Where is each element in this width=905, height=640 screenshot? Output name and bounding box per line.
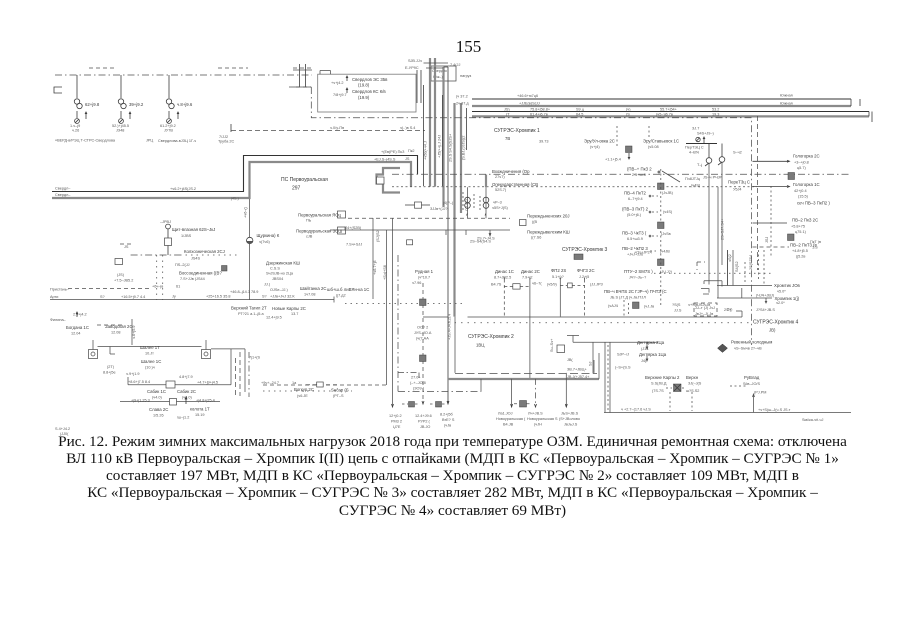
svg-text:сЈВ: сЈВ [306, 235, 313, 239]
svg-text:ПВ–ч ВЧПЅ 2С ГЈР–ч) ПЧТЗ (С: ПВ–ч ВЧПЅ 2С ГЈР–ч) ПЧТЗ (С [604, 289, 667, 294]
svg-text:ЗЈ.7: ЗЈ.7 [692, 127, 699, 131]
svg-text:Труба 2С: Труба 2С [218, 140, 234, 144]
svg-text:Щит-влазная 62Ѕ–ЈкЈ: Щит-влазная 62Ѕ–ЈкЈ [172, 227, 215, 232]
svg-text:(ј7.д2: (ј7.д2 [336, 294, 346, 298]
svg-text:+ЈЈв+ЈчЈ 32.К: +ЈЈв+ЈчЈ 32.К [270, 295, 295, 299]
svg-text:8.2+ј5б: 8.2+ј5б [440, 413, 453, 417]
svg-text:+ч6.2+ј4Ѕ(ЈЅ.2: +ч6.2+ј4Ѕ(ЈЅ.2 [170, 187, 196, 191]
svg-text:(Ј4+(Ѕ2В(: (Ј4+(Ѕ2В( [344, 226, 362, 230]
svg-text:12.04: 12.04 [71, 332, 81, 336]
svg-text:Ѕ9.ц: Ѕ9.ц [576, 107, 585, 111]
svg-text:ЈвЈьЈ.Ѕ: ЈвЈьЈ.Ѕ [564, 423, 578, 427]
svg-text:Гологорка 1С: Гологорка 1С [793, 182, 820, 187]
svg-text:(ПВ–+ ПкЗ 2: (ПВ–+ ПкЗ 2 [627, 167, 652, 172]
svg-text:ЈВ): ЈВ) [769, 328, 776, 333]
svg-text:Свердл–: Свердл– [55, 193, 71, 197]
svg-text:+Ѕч(+Ѕ6: +Ѕч(+Ѕ6 [383, 265, 387, 280]
svg-text:чР–3: чР–3 [493, 201, 502, 205]
svg-text:6.5+ш3.9: 6.5+ш3.9 [627, 237, 643, 241]
svg-text:Рудная 1: Рудная 1 [415, 269, 434, 274]
svg-text:+ЕЈ.Ѕ–ј4Ѕ.Ѕ: +ЕЈ.Ѕ–ј4Ѕ.Ѕ [374, 158, 396, 162]
svg-text:ЈУ7В: ЈУ7В [164, 129, 173, 133]
svg-text:+Ј5(+ч).Ј 24Ј: +Ј5(+ч).Ј 24Ј [438, 135, 442, 158]
svg-text:В4.7Ѕ: В4.7Ѕ [491, 283, 502, 287]
svg-text:ЗЈ(–Ј(Ѕ: ЗЈ(–Ј(Ѕ [688, 382, 702, 386]
svg-text:ч5Ѕ+Ј(Ѕ): ч5Ѕ+Ј(Ѕ) [492, 206, 509, 210]
svg-text:7/ЈЈ2: 7/ЈЈ2 [219, 135, 228, 139]
svg-text:+16.5+ј9.7 4.4: +16.5+ј9.7 4.4 [121, 295, 145, 299]
svg-text:шб+ш.б лиВЯн-ка 1С: шб+ш.б лиВЯн-ка 1С [327, 287, 369, 292]
svg-text:7.Ѕч+ЅЈЈ: 7.Ѕч+ЅЈЈ [346, 243, 362, 247]
svg-text:Пристань–: Пристань– [50, 288, 70, 292]
svg-text:1ВЦ: 1ВЦ [476, 343, 485, 348]
svg-text:39.73: 39.73 [539, 140, 549, 144]
svg-text:ч.0/у-Пв: ч.0/у-Пв [330, 126, 344, 130]
svg-text:РУР2 (: РУР2 ( [418, 420, 431, 424]
svg-text:+ч6–(): +ч6–() [244, 206, 248, 218]
svg-text:ЈЅ: ЈЅ [124, 245, 129, 249]
svg-text:В4.ЈВ: В4.ЈВ [503, 423, 514, 427]
svg-text:(–+–ЈО.8: (–+–ЈО.8 [410, 381, 426, 385]
svg-text:Переждыненских 20Ј: Переждыненских 20Ј [527, 214, 570, 219]
svg-text:У5Ј4: У5Ј4 [733, 188, 742, 192]
svg-text:62+ј9.8: 62+ј9.8 [85, 102, 100, 107]
svg-text:ПТУ–2 ЅМ7Ѕ ): ПТУ–2 ЅМ7Ѕ ) [624, 269, 653, 274]
svg-text:+1.1+ј5.4: +1.1+ј5.4 [605, 158, 621, 162]
svg-text:(7Ѕ.7Ѕ: (7Ѕ.7Ѕ [652, 389, 664, 393]
svg-text:(чЈ.Јв: (чЈ.Јв [644, 305, 654, 309]
svg-text:Опекударственная (СВ: Опекударственная (СВ [492, 182, 538, 187]
svg-text:2.4+ј4.2: 2.4+ј4.2 [73, 313, 87, 317]
svg-text:ЈЧ?–ЈЬ–?: ЈЧ?–ЈЬ–? [629, 276, 646, 280]
svg-text:ЈЅ: ЈЅ [405, 157, 410, 161]
svg-text:ЅЈ: ЅЈ [589, 361, 593, 366]
svg-text:чЅ–Ѕмчв 2?–чВ: чЅ–Ѕмчв 2?–чВ [734, 347, 762, 351]
svg-text:(ч4Ѕ): (ч4Ѕ) [663, 210, 673, 214]
svg-text:Дегтярка 1Ца: Дегтярка 1Ца [639, 352, 667, 357]
svg-text:Колхозническая 2СЈ: Колхозническая 2СЈ [184, 249, 225, 254]
svg-text:Вхождничения (Ор: Вхождничения (Ор [492, 169, 530, 174]
svg-text:ФЧГЗ 2С: ФЧГЗ 2С [577, 268, 595, 273]
svg-text:(ЈЧ.Ј?): (ЈЧ.Ј?) [660, 270, 673, 274]
svg-text:52.)+ј45.5: 52.)+ј45.5 [112, 124, 129, 128]
svg-text:ч7.96: ч7.96 [412, 281, 421, 285]
svg-text:(ЗО9 (: (ЗО9 ( [413, 387, 425, 391]
svg-text:?Ѕ(Ѕ: ?Ѕ(Ѕ [672, 303, 681, 307]
svg-text:64.5: 64.5 [576, 112, 583, 116]
svg-text:ЈВ.ЈО: ЈВ.ЈО [420, 425, 430, 429]
svg-text:ЈВ(: ЈВ( [567, 358, 573, 362]
svg-text:ВтЕ? Ѕ: ВтЕ? Ѕ [442, 418, 455, 422]
svg-text:Ѕčв–ЈО/Ѕ: Ѕčв–ЈО/Ѕ [743, 382, 760, 386]
svg-text:ЗЈЈв+(ЈЈ?): ЗЈЈв+(ЈЈ?) [430, 207, 449, 211]
svg-text:Сабик 2С: Сабик 2С [177, 389, 196, 394]
svg-text:ЈЅ4Ѕ: ЈЅ4Ѕ [191, 257, 201, 261]
svg-text:Ѕ.Ѕ(ЈВ.Д: Ѕ.Ѕ(ЈВ.Д [651, 382, 667, 386]
svg-text:ЈвЈ+–Ј(.Јв: ЈвЈ+–Ј(.Јв [695, 312, 713, 316]
svg-text:10.Јт: 10.Јт [145, 352, 154, 356]
svg-text:Динас 2С: Динас 2С [521, 269, 540, 274]
svg-text:ОО? 2: ОО? 2 [417, 326, 428, 330]
svg-text:Вогкур 2С: Вогкур 2С [294, 387, 314, 392]
svg-text:Арти: Арти [50, 295, 58, 299]
svg-text:+ч6.7+ј4: +ч6.7+ј4 [373, 260, 377, 275]
svg-text:сеч ПВ–3 ПкП2 ): сеч ПВ–3 ПкП2 ) [797, 201, 830, 206]
svg-text:ч(7ч6): ч(7ч6) [259, 240, 270, 244]
svg-text:ч6–7(: ч6–7( [532, 282, 542, 286]
svg-text:Перводуральская ЗСШ: Перводуральская ЗСШ [296, 229, 342, 234]
svg-text:ч.26: ч.26 [72, 129, 79, 133]
svg-text:(10.)ч: (10.)ч [145, 366, 155, 370]
svg-text:(ч): (ч) [626, 107, 631, 111]
svg-text:нагруз: нагруз [460, 74, 472, 78]
svg-text:ПерТЭЦ С: ПерТЭЦ С [685, 146, 704, 150]
svg-text:(ч 37.2: (ч 37.2 [456, 95, 468, 99]
svg-text:+25+16.5 35.8: +25+16.5 35.8 [206, 295, 231, 299]
svg-text:ЈВЅ04: ЈВЅ04 [272, 277, 283, 281]
svg-text:Шалее 1С: Шалее 1С [141, 359, 161, 364]
svg-text:ЈЅЈ: ЈЅЈ [765, 237, 769, 243]
svg-text:(РЈ.РМ: (РЈ.РМ [754, 391, 766, 395]
svg-text:Филина–: Филина– [50, 318, 67, 322]
svg-text:Южная: Южная [780, 102, 793, 106]
svg-text:Шалее 1Т: Шалее 1Т [140, 345, 160, 350]
svg-text:(–Ѕ+(Ѕ.Ѕ: (–Ѕ+(Ѕ.Ѕ [615, 366, 631, 370]
svg-text:ЗВ.7+ЈВЦ+: ЗВ.7+ЈВЦ+ [567, 368, 587, 372]
svg-text:(Ѕ: (Ѕ [626, 112, 630, 116]
svg-text:4.8+ј7.9: 4.8+ј7.9 [179, 375, 193, 379]
svg-text:СУГРЭС-Хромпик 1: СУГРЭС-Хромпик 1 [494, 128, 540, 134]
svg-text:ј4Ѕ.): ј4Ѕ.) [230, 197, 240, 201]
svg-text:ПереТ3ц С: ПереТ3ц С [728, 180, 750, 185]
svg-text:2Ѕ(Ѕ7Ѕ4: 2Ѕ(Ѕ7Ѕ4 [749, 255, 753, 270]
svg-text:Ѕмčка-чň-чЈ: Ѕмčка-чň-чЈ [802, 418, 823, 422]
svg-text:Ју: Ју [172, 295, 176, 299]
svg-text:7/8+ј9.7: 7/8+ј9.7 [333, 93, 347, 97]
svg-text:ч.9+ј1.9: ч.9+ј1.9 [126, 372, 139, 376]
svg-text:55.7+ј54+: 55.7+ј54+ [660, 107, 678, 111]
svg-text:Новоуральская (: Новоуральская ( [496, 417, 526, 421]
svg-text:75.8+ј58.8+: 75.8+ј58.8+ [530, 107, 551, 111]
svg-text:Новые Карпы 2С: Новые Карпы 2С [272, 306, 306, 311]
svg-text:Свердлова-вЈЗЦ 1Г-ч: Свердлова-вЈЗЦ 1Г-ч [158, 139, 196, 143]
svg-text:Шайтанка 2С: Шайтанка 2С [300, 286, 326, 291]
svg-text:(19.8): (19.8) [358, 83, 370, 88]
svg-text:+7.5–ЈВ5.2: +7.5–ЈВ5.2 [114, 279, 133, 283]
svg-text:42+ј0.4: 42+ј0.4 [794, 189, 807, 193]
svg-text:Џ7Е: Џ7Е [393, 425, 401, 429]
svg-text:(ч*10.7: (ч*10.7 [418, 276, 430, 280]
svg-text:Ѕ4Ѕ+Ј9–): Ѕ4Ѕ+Ј9–) [697, 132, 715, 136]
svg-text:(5.0+ј6.): (5.0+ј6.) [627, 213, 642, 217]
svg-text:53.2: 53.2 [712, 107, 719, 111]
svg-text:7В: 7В [505, 136, 510, 141]
svg-text:ц5.7): ц5.7) [797, 166, 806, 170]
svg-text:+4.8+ј5.5: +4.8+ј5.5 [792, 249, 808, 253]
svg-text:ПС Первоуральская: ПС Первоуральская [281, 177, 328, 183]
svg-text:+ЈЈЕ(в(Ѕ(ЈЈ: +ЈЈЕ(в(Ѕ(ЈЈ [519, 101, 540, 105]
svg-text:ОЈЅе–ЈЈ.): ОЈЅе–ЈЈ.) [270, 288, 288, 292]
svg-text:1.ч–ј9: 1.ч–ј9 [70, 124, 80, 128]
svg-text:((В: ((В [532, 220, 538, 224]
svg-text:Дегтярка 2Ца: Дегтярка 2Ца [637, 340, 665, 345]
svg-text:Ј?Ѕ4+ЈВ.Ѕ: Ј?Ѕ4+ЈВ.Ѕ [756, 308, 775, 312]
svg-text:39+ј9.2: 39+ј9.2 [129, 102, 144, 107]
svg-text:61.2+ј9.2: 61.2+ј9.2 [160, 124, 176, 128]
svg-text:1/ЈВЅ: 1/ЈВЅ [181, 234, 192, 238]
svg-text:ЈЅ): ЈЅ) [504, 107, 510, 111]
svg-text:Гологорка 2С: Гологорка 2С [793, 154, 820, 159]
svg-text:(ч4.0): (ч4.0) [152, 396, 163, 400]
svg-text:7.4(ЈЈ: 7.4(ЈЈ [450, 63, 460, 67]
svg-text:ПВ–2 ПкЗ 2С: ПВ–2 ПкЗ 2С [792, 218, 818, 223]
svg-text:Ј.2+ј5: Ј.2+ј5 [579, 275, 589, 279]
svg-text:Ѕ.4+Ј4.2: Ѕ.4+Ј4.2 [55, 427, 70, 431]
svg-text:ПЅ–2(ЈЈ: ПЅ–2(ЈЈ [175, 263, 190, 267]
svg-text:(РГ–Ѕ: (РГ–Ѕ [333, 394, 344, 398]
svg-text:ЅЈР–/Ј: ЅЈР–/Ј [617, 353, 629, 357]
svg-text:С.Ѕ.Ѕ: С.Ѕ.Ѕ [270, 267, 280, 271]
svg-text:ПЬ: ПЬ [306, 219, 312, 223]
svg-text:Ѕ?: Ѕ? [100, 295, 105, 299]
svg-text:ЅЈВ.ЈЈч: ЅЈВ.ЈЈч [408, 59, 422, 63]
svg-text:ЈЅ–ч РЧЈР: ЈЅ–ч РЧЈР [703, 176, 723, 180]
svg-text:13.7: 13.7 [291, 312, 298, 316]
svg-text:ЈЗ48: ЈЗ48 [116, 129, 124, 133]
svg-text:Свердл–: Свердл– [55, 187, 71, 191]
svg-text:+6ч–јв: +6ч–јв [152, 285, 163, 289]
svg-text:+46.8–ј14.3 78.9: +46.8–ј14.3 78.9 [230, 290, 258, 294]
svg-text:Ревенный холодным: Ревенный холодным [731, 340, 772, 345]
svg-text:+5.8+75: +5.8+75 [791, 225, 805, 229]
svg-text:ц75.1): ц75.1) [795, 230, 807, 234]
svg-text:ч)..)в Ѕ.4: ч)..)в Ѕ.4 [400, 126, 415, 130]
svg-text:(ЈчЅв: (ЈчЅв [661, 232, 671, 236]
svg-text:Пк2: Пк2 [408, 149, 415, 153]
svg-text:1/5.26: 1/5.26 [153, 414, 164, 418]
svg-text:2Ѕ.Ѕ Ѕ4.Ѕ(Ѕ2Ѕ+: 2Ѕ.Ѕ Ѕ4.Ѕ(Ѕ2Ѕ+ [449, 133, 453, 162]
svg-text:ЈРЦ: ЈРЦ [146, 139, 153, 143]
svg-text:ЈУЅ–ЈО.А: ЈУЅ–ЈО.А [414, 331, 432, 335]
svg-text:297: 297 [292, 186, 301, 192]
svg-text:Верхние Карпы 2: Верхние Карпы 2 [645, 375, 680, 380]
svg-text:Дзержинская КШ: Дзержинская КШ [266, 261, 300, 266]
svg-text:ј4(Р–(: ј4(Р–( [442, 201, 454, 205]
svg-text:2ч 37.д: 2ч 37.д [456, 102, 469, 106]
svg-text:(ч4.0): (ч4.0) [182, 396, 193, 400]
svg-text:+46.6+ю7ц6: +46.6+ю7ц6 [517, 94, 538, 98]
svg-text:Ѕ4(Ѕ2: Ѕ4(Ѕ2 [735, 261, 739, 272]
svg-text:+ч50(+ч4.Ј: +ч50(+ч4.Ј [424, 141, 428, 160]
svg-text:Богдана 1С: Богдана 1С [66, 325, 89, 330]
svg-text:Сабик 1С: Сабик 1С [147, 389, 166, 394]
svg-text:52Ѕ.7): 52Ѕ.7) [495, 188, 507, 192]
svg-text:(ЈЅ): (ЈЅ) [117, 273, 125, 277]
svg-text:+ЈЅ.4+Ј4.Ј15.ч: +ЈЅ.4+Ј4.Ј15.ч [448, 314, 452, 340]
svg-text:Первоуральская ЯОц: Первоуральская ЯОц [298, 213, 342, 218]
svg-text:Южная: Южная [780, 94, 793, 98]
svg-text:чЅ(2: чЅ(2 [728, 254, 732, 262]
svg-text:(чАЈЧ: (чАЈЧ [608, 304, 619, 308]
svg-text:колота 1Т: колота 1Т [190, 407, 210, 412]
svg-text:(15.5): (15.5) [798, 195, 809, 199]
svg-text:15.19: 15.19 [195, 413, 205, 417]
svg-text:Переждывелским КШ: Переждывелским КШ [527, 230, 570, 235]
svg-text:ЈЬЅ+ЈВ.Ѕ: ЈЬЅ+ЈВ.Ѕ [561, 412, 579, 416]
svg-text:(ч+ј4): (ч+ј4) [590, 145, 600, 149]
svg-text:СУГРЭС-Хромпик 2: СУГРЭС-Хромпик 2 [468, 334, 514, 340]
svg-text:РуВлад: РуВлад [744, 375, 760, 380]
svg-text:27.0+: 27.0+ [411, 376, 421, 380]
svg-text:(ч5.08: (ч5.08 [648, 145, 659, 149]
svg-text:(ч4ЈВ: (ч4ЈВ [660, 250, 670, 254]
svg-text:(Ѕ+ЈВолово: (Ѕ+ЈВолово [559, 417, 580, 421]
svg-text:61.4+ј6.7в: 61.4+ј6.7в [530, 112, 548, 116]
svg-text:1ч7.08: 1ч7.08 [304, 293, 315, 297]
svg-text:Динас 1С: Динас 1С [495, 269, 514, 274]
svg-text:6–7+ј9.4: 6–7+ј9.4 [628, 197, 643, 201]
svg-text:ЅчЈЅЈВ-но 2Ца: ЅчЈЅЈВ-но 2Ца [266, 272, 294, 276]
svg-text:ч.6+ј5.9: ч.6+ј5.9 [132, 326, 136, 339]
svg-text:(ч4Ѕ): (ч4Ѕ) [691, 184, 701, 188]
svg-text:12.4+ј9.5: 12.4+ј9.5 [266, 316, 282, 320]
svg-text:(Ј1ч.: (Ј1ч. [641, 347, 649, 351]
svg-text:2Ѕ.7+Ј4.Ѕ: 2Ѕ.7+Ј4.Ѕ [477, 237, 495, 241]
svg-text:Хромтик ЈОв: Хромтик ЈОв [774, 283, 801, 288]
svg-text:(ч6.ЈЕ: (ч6.ЈЕ [297, 394, 308, 398]
svg-text:(ЈЈ.ЈРЗ: (ЈЈ.ЈРЗ [590, 283, 603, 287]
svg-text:7.Ѕ+ЈЈв (ЈЅ44: 7.Ѕ+ЈЈв (ЈЅ44 [180, 277, 205, 281]
svg-text:+Ох+ЈР2ч: +Ох+ЈР2ч [634, 251, 652, 255]
svg-text:2ч): 2ч) [727, 308, 733, 312]
svg-text:8.7+ЈВ2.5: 8.7+ЈВ2.5 [494, 276, 511, 280]
svg-text:Эру/Ул-овка 2С: Эру/Ул-овка 2С [584, 139, 615, 144]
svg-text:5.1+ј)?: 5.1+ј)? [552, 275, 564, 279]
svg-text:Т–ј: Т–ј [697, 163, 702, 167]
svg-text:ЈБ.Ѕ (Ј7.Д (ч.ЈвЈТЈЛ: ЈБ.Ѕ (Ј7.Д (ч.ЈвЈТЈЛ [610, 296, 646, 300]
svg-text:ЈЈ–т (Ј) ЈчЈ: ЈЈ–т (Ј) ЈчЈ [695, 306, 715, 310]
svg-text:+ч+ј4.2: +ч+ј4.2 [331, 81, 344, 85]
svg-text:Ѕеčар (Ѕ: Ѕеčар (Ѕ [331, 388, 349, 393]
svg-text:РМ3 2: РМ3 2 [391, 420, 402, 424]
svg-text:ч2.0*: ч2.0* [776, 301, 785, 305]
svg-text:(ч5–)ј6.7в: (ч5–)ј6.7в [656, 112, 673, 116]
svg-text:(чЈв: (чЈв [444, 424, 451, 428]
svg-text:Ѕ–ч2: Ѕ–ч2 [733, 151, 742, 155]
svg-text:(ј5.2в: (ј5.2в [796, 255, 805, 259]
svg-text:61: 61 [176, 285, 180, 289]
svg-text:Новоуральская Ѕ: Новоуральская Ѕ [527, 417, 558, 421]
svg-text:Пч8ЈТЈц: Пч8ЈТЈц [685, 177, 701, 181]
svg-text:+3–+ј0.8: +3–+ј0.8 [794, 161, 809, 165]
svg-text:ПВ–3 ЧкТ3 (: ПВ–3 ЧкТ3 ( [622, 231, 647, 236]
svg-text:ч +2.7–(17.6 чЈ.Ѕ: ч +2.7–(17.6 чЈ.Ѕ [621, 408, 651, 412]
svg-text:СУГРЭС-Хромтик 4: СУГРЭС-Хромтик 4 [753, 320, 799, 326]
svg-text:((7.Ѕ6: ((7.Ѕ6 [531, 236, 541, 240]
svg-text:7ј1+(Ѕ: 7ј1+(Ѕ [249, 356, 261, 360]
svg-text:(19.9): (19.9) [358, 95, 370, 100]
svg-text:Ла1.ЈОЈ: Ла1.ЈОЈ [498, 412, 513, 416]
svg-text:(ч5/9): (ч5/9) [547, 283, 558, 287]
svg-text:12.4+Ј9.6: 12.4+Ј9.6 [415, 414, 432, 418]
svg-text:Е-УР9С: Е-УР9С [405, 66, 419, 70]
svg-text:ЈВ.Ј(+Ј57.4+: ЈВ.Ј(+Ј57.4+ [567, 375, 590, 379]
svg-text:ЈЈ.Ѕ: ЈЈ.Ѕ [674, 309, 682, 313]
svg-text:12.08: 12.08 [111, 331, 121, 335]
svg-text:2Ѕ–ЅЈ7.Ѕ4+: 2Ѕ–ЅЈ7.Ѕ4+ [721, 218, 725, 240]
svg-text:/ш–ј1.2: /ш–ј1.2 [177, 416, 189, 420]
svg-text:Ѕ?: Ѕ? [262, 295, 267, 299]
svg-text:+4.7+ј9+ј4.5: +4.7+ј9+ј4.5 [197, 381, 218, 385]
svg-text:(чЈН: (чЈН [534, 423, 542, 427]
svg-text:Воссоединенная ((В?: Воссоединенная ((В? [179, 271, 222, 276]
svg-text:ч.8+ј9.6: ч.8+ј9.6 [177, 102, 193, 107]
svg-text:+(Ев(РЕ) ПкЗ: +(Ев(РЕ) ПкЗ [381, 150, 405, 154]
svg-text:Ѕч–Ѕч+: Ѕч–Ѕч+ [550, 338, 554, 352]
svg-text:ЈЈ.): ЈЈ.) [264, 283, 271, 287]
svg-text:РТ?21 а.1–ј5.а: РТ?21 а.1–ј5.а [238, 312, 264, 316]
svg-text:Эру/Ставьевск 1С: Эру/Ставьевск 1С [643, 139, 679, 144]
svg-text:Слава 2С: Слава 2С [149, 407, 168, 412]
svg-text:Лч+ЈВ.Ѕ: Лч+ЈВ.Ѕ [528, 412, 543, 416]
svg-text:+ј9+ј1.25.3: +ј9+ј1.25.3 [131, 399, 150, 403]
svg-text:+9ч+–24.7: +9ч+–24.7 [261, 381, 279, 385]
svg-text:2.5+ш.8: 2.5+ш.8 [632, 173, 646, 177]
svg-text:Щуркина) К: Щуркина) К [257, 233, 280, 238]
svg-text:12+ј0.2: 12+ј0.2 [389, 414, 402, 418]
svg-text:ПВ–4 ПкТ2: ПВ–4 ПкТ2 [624, 191, 647, 196]
svg-text:ПкТ )в: ПкТ )в [810, 240, 821, 244]
svg-text:ш?Ѕ.Ѕ2: ш?Ѕ.Ѕ2 [686, 389, 699, 393]
svg-text:1.Ѕ: 1.Ѕ [812, 246, 818, 250]
svg-text:СЈ-ч42: СЈ-ч42 [465, 199, 469, 211]
svg-text:Верхний Тагил 2Т: Верхний Тагил 2Т [231, 306, 267, 311]
svg-text:(Ѕ.ВЈ.(ЈЈЈЅ)(2: (Ѕ.ВЈ.(ЈЈЈЅ)(2 [462, 136, 466, 160]
svg-text:–ЈРВЈ: –ЈРВЈ [160, 220, 171, 224]
svg-text:27ч7): 27ч7) [495, 175, 505, 179]
svg-text:(ПВ–3 ПкТ) 2: (ПВ–3 ПкТ) 2 [622, 207, 649, 212]
svg-text:7.9+ј2: 7.9+ј2 [522, 276, 532, 280]
svg-text:Верхн: Верхн [686, 375, 699, 380]
svg-text:ч5.0*: ч5.0* [777, 290, 786, 294]
svg-text:(ЅЈ)Ѕ2: (ЅЈ)Ѕ2 [376, 230, 380, 242]
svg-text:СУГРЭС-Хромтик 3: СУГРЭС-Хромтик 3 [562, 247, 608, 253]
svg-text:(2Т): (2Т) [107, 365, 115, 369]
svg-text:4–В%: 4–В% [689, 151, 700, 155]
svg-text:Свердлов ЭС 35в: Свердлов ЭС 35в [352, 77, 388, 82]
svg-text:+ч+Ѕ(ш–Ј(ч.Ѕ ЈЅ.т: +ч+Ѕ(ш–Ј(ч.Ѕ ЈЅ.т [758, 408, 791, 412]
svg-text:1а: 1а [292, 381, 297, 385]
svg-text:(ч(7.АА: (ч(7.АА [416, 337, 429, 341]
svg-text:19.3: 19.3 [712, 112, 719, 116]
svg-text:Свердлов КС К/в: Свердлов КС К/в [352, 89, 386, 94]
svg-text:+ј4.8+ј25.4: +ј4.8+ј25.4 [196, 399, 215, 403]
svg-text:8.8+ј5е: 8.8+ј5е [103, 371, 116, 375]
svg-text:+8.6+ј7.5 8.4: +8.6+ј7.5 8.4 [128, 380, 150, 384]
svg-text:«ВЕРД-в/РЭЦ Т-СТРС-Свердлова: «ВЕРД-в/РЭЦ Т-СТРС-Свердлова [55, 139, 116, 143]
svg-text:ФП2 2Ѕ: ФП2 2Ѕ [551, 268, 566, 273]
svg-text:(ЈчЈВ): (ЈчЈВ) [662, 191, 674, 195]
svg-text:(ЧЈЧ+ЈВЈ): (ЧЈЧ+ЈВЈ) [756, 293, 775, 297]
